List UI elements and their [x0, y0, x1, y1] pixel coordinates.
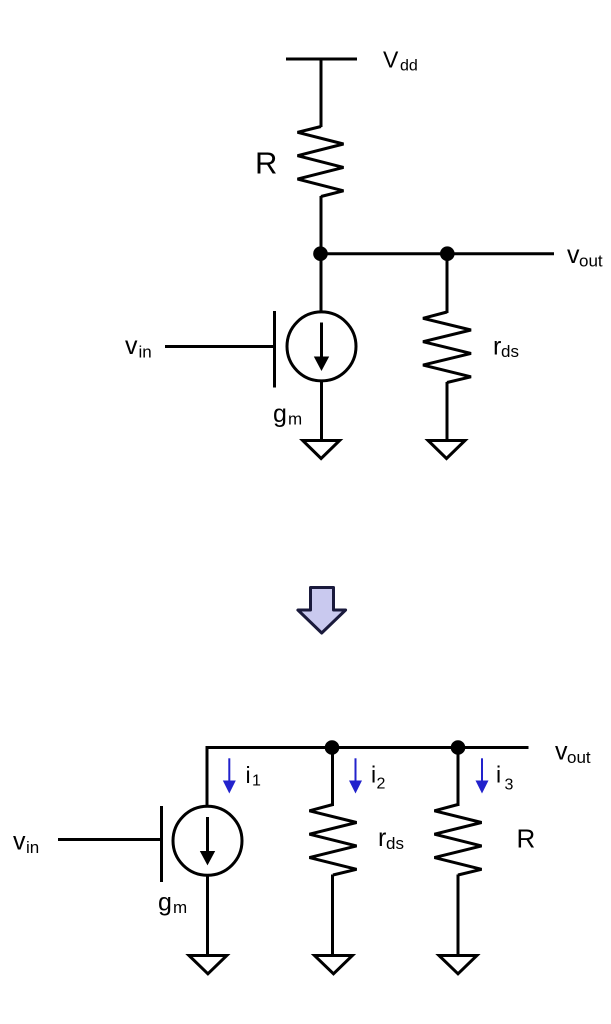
svg-text:in: in [26, 838, 39, 857]
svg-text:ds: ds [386, 834, 404, 853]
svg-text:dd: dd [400, 58, 418, 75]
svg-text:R: R [517, 824, 536, 854]
svg-text:v: v [125, 332, 138, 360]
svg-text:g: g [158, 889, 172, 917]
svg-text:out: out [567, 748, 591, 767]
svg-text:i: i [496, 762, 501, 788]
svg-text:in: in [139, 343, 152, 362]
svg-text:m: m [173, 898, 187, 917]
svg-text:v: v [13, 828, 26, 856]
svg-text:2: 2 [377, 776, 386, 793]
svg-text:g: g [273, 400, 287, 428]
svg-text:ds: ds [501, 342, 519, 361]
svg-text:3: 3 [505, 777, 514, 794]
svg-text:i: i [371, 762, 376, 788]
svg-text:out: out [579, 252, 603, 271]
svg-text:R: R [255, 146, 277, 181]
svg-text:i: i [246, 762, 251, 788]
svg-text:V: V [383, 47, 399, 73]
svg-text:1: 1 [252, 773, 261, 790]
svg-text:m: m [288, 410, 302, 429]
